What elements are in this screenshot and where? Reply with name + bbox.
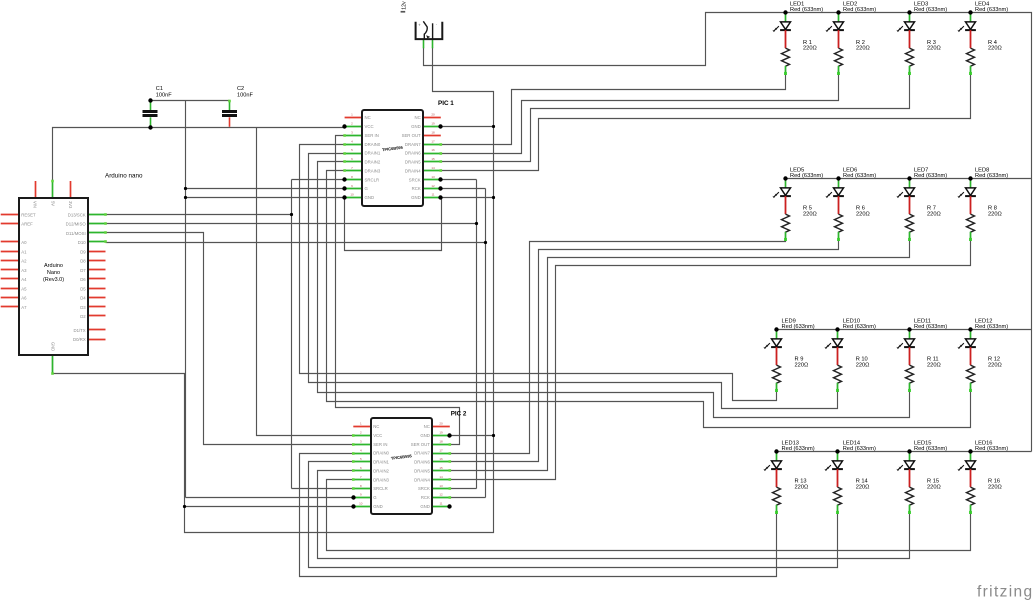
svg-text:SER IN: SER IN <box>365 133 379 138</box>
svg-text:A0: A0 <box>21 240 27 245</box>
svg-text:VCC: VCC <box>365 124 374 129</box>
svg-text:DRAIN1: DRAIN1 <box>365 151 381 156</box>
svg-text:DRAIN7: DRAIN7 <box>405 142 421 147</box>
svg-text:15: 15 <box>439 466 443 470</box>
svg-text:NC: NC <box>414 115 420 120</box>
svg-text:SER IN: SER IN <box>373 442 387 447</box>
svg-text:DRAIN4: DRAIN4 <box>405 168 421 173</box>
svg-text:Red (633nm): Red (633nm) <box>843 324 876 330</box>
svg-text:GND: GND <box>411 124 421 129</box>
svg-text:3: 3 <box>360 439 362 443</box>
svg-text:SER OUT: SER OUT <box>402 133 421 138</box>
svg-text:GND: GND <box>420 504 430 509</box>
svg-text:C1: C1 <box>156 86 163 92</box>
svg-text:3V3: 3V3 <box>68 201 73 209</box>
svg-text:DRAIN1: DRAIN1 <box>373 460 389 465</box>
svg-text:Red (633nm): Red (633nm) <box>782 324 815 330</box>
svg-text:D13/SCK: D13/SCK <box>68 213 86 218</box>
svg-text:220Ω: 220Ω <box>795 362 809 368</box>
svg-text:D4: D4 <box>80 296 86 301</box>
svg-text:Red (633nm): Red (633nm) <box>790 7 823 13</box>
svg-text:11: 11 <box>431 193 434 197</box>
svg-text:Arduino: Arduino <box>44 263 63 269</box>
svg-text:4: 4 <box>351 139 353 143</box>
svg-text:220Ω: 220Ω <box>927 484 941 490</box>
svg-text:14: 14 <box>439 475 443 479</box>
svg-text:NC: NC <box>365 115 371 120</box>
svg-text:D0/RX: D0/RX <box>73 337 86 342</box>
svg-text:VIN: VIN <box>33 201 38 208</box>
svg-text:NC: NC <box>424 424 430 429</box>
svg-text:16: 16 <box>439 457 443 461</box>
svg-text:GND: GND <box>411 195 421 200</box>
svg-text:10: 10 <box>359 502 363 506</box>
svg-text:220Ω: 220Ω <box>856 362 870 368</box>
svg-text:4: 4 <box>360 448 362 452</box>
svg-text:GND: GND <box>373 504 383 509</box>
svg-text:C2: C2 <box>237 86 244 92</box>
svg-text:DRAIN6: DRAIN6 <box>405 151 421 156</box>
svg-text:A1: A1 <box>21 249 27 254</box>
svg-text:SRCLR: SRCLR <box>373 486 388 491</box>
svg-text:220Ω: 220Ω <box>988 484 1002 490</box>
svg-text:20: 20 <box>439 422 443 426</box>
svg-text:Red (633nm): Red (633nm) <box>975 7 1008 13</box>
svg-text:220Ω: 220Ω <box>856 484 870 490</box>
svg-text:Red (633nm): Red (633nm) <box>914 173 947 179</box>
svg-text:220Ω: 220Ω <box>856 46 870 52</box>
svg-text:Red (633nm): Red (633nm) <box>975 324 1008 330</box>
svg-text:DRAIN4: DRAIN4 <box>414 477 430 482</box>
svg-text:A6: A6 <box>21 296 27 301</box>
svg-text:9: 9 <box>351 184 353 188</box>
svg-text:2: 2 <box>360 430 362 434</box>
svg-text:SRCK: SRCK <box>409 177 421 182</box>
svg-text:DRAIN2: DRAIN2 <box>373 468 389 473</box>
svg-text:16: 16 <box>431 148 435 152</box>
svg-text:17: 17 <box>431 139 435 143</box>
svg-text:220Ω: 220Ω <box>927 362 941 368</box>
svg-text:D2: D2 <box>80 314 86 319</box>
svg-text:Nano: Nano <box>47 270 60 276</box>
svg-text:DRAIN2: DRAIN2 <box>365 160 381 165</box>
svg-text:220Ω: 220Ω <box>803 211 817 217</box>
svg-text:GND: GND <box>420 433 430 438</box>
svg-text:220Ω: 220Ω <box>927 211 941 217</box>
svg-text:7: 7 <box>351 166 353 170</box>
svg-text:D9: D9 <box>80 249 86 254</box>
svg-text:D6: D6 <box>80 277 86 282</box>
svg-text:8: 8 <box>360 484 362 488</box>
svg-text:220Ω: 220Ω <box>988 362 1002 368</box>
svg-text:10: 10 <box>350 193 354 197</box>
svg-text:220Ω: 220Ω <box>856 211 870 217</box>
svg-text:Arduino nano: Arduino nano <box>105 173 143 180</box>
svg-text:11: 11 <box>439 502 442 506</box>
svg-text:13: 13 <box>431 175 435 179</box>
svg-text:100nF: 100nF <box>237 92 253 98</box>
svg-text:A4: A4 <box>21 277 27 282</box>
svg-text:Red (633nm): Red (633nm) <box>914 7 947 13</box>
svg-text:19: 19 <box>439 430 443 434</box>
svg-text:220Ω: 220Ω <box>803 46 817 52</box>
svg-text:220Ω: 220Ω <box>988 46 1002 52</box>
svg-text:D8: D8 <box>80 259 86 264</box>
svg-text:DRAIN3: DRAIN3 <box>365 168 381 173</box>
svg-text:D10: D10 <box>78 240 86 245</box>
svg-text:8: 8 <box>351 175 353 179</box>
svg-text:Red (633nm): Red (633nm) <box>914 446 947 452</box>
svg-text:A2: A2 <box>21 259 27 264</box>
svg-text:100nF: 100nF <box>156 92 172 98</box>
svg-text:13: 13 <box>439 484 443 488</box>
svg-text:(Rev3.0): (Rev3.0) <box>43 277 64 283</box>
svg-text:12: 12 <box>431 184 435 188</box>
svg-text:20: 20 <box>431 113 435 117</box>
svg-text:PIC 1: PIC 1 <box>438 100 454 107</box>
svg-text:AREF: AREF <box>21 222 33 227</box>
svg-text:Red (633nm): Red (633nm) <box>843 446 876 452</box>
svg-text:14: 14 <box>431 166 435 170</box>
svg-text:DRAIN5: DRAIN5 <box>414 468 430 473</box>
svg-text:A7: A7 <box>21 305 27 310</box>
svg-text:Red (633nm): Red (633nm) <box>843 173 876 179</box>
svg-text:5: 5 <box>351 148 353 152</box>
svg-text:NC: NC <box>373 424 379 429</box>
svg-text:D1/TX: D1/TX <box>74 328 86 333</box>
svg-text:GND: GND <box>50 342 55 351</box>
svg-text:18: 18 <box>431 130 435 134</box>
svg-text:-: - <box>436 22 438 27</box>
svg-text:5: 5 <box>360 457 362 461</box>
svg-text:GND: GND <box>365 195 375 200</box>
svg-text:6: 6 <box>360 466 362 470</box>
svg-text:D7: D7 <box>80 268 86 273</box>
svg-text:D5: D5 <box>80 286 86 291</box>
svg-text:VCC: VCC <box>373 433 382 438</box>
svg-text:220Ω: 220Ω <box>795 484 809 490</box>
svg-text:DRAIN3: DRAIN3 <box>373 477 389 482</box>
svg-text:220Ω: 220Ω <box>988 211 1002 217</box>
svg-text:19: 19 <box>431 122 435 126</box>
svg-text:A5: A5 <box>21 286 27 291</box>
svg-text:Red (633nm): Red (633nm) <box>975 446 1008 452</box>
svg-text:+: + <box>418 22 421 27</box>
svg-text:7: 7 <box>360 475 362 479</box>
svg-text:Red (633nm): Red (633nm) <box>790 173 823 179</box>
svg-text:DRAIN5: DRAIN5 <box>405 160 421 165</box>
svg-text:DRAIN0: DRAIN0 <box>365 142 381 147</box>
svg-text:3: 3 <box>351 130 353 134</box>
svg-text:2: 2 <box>351 122 353 126</box>
svg-text:RCK: RCK <box>412 186 421 191</box>
svg-text:9: 9 <box>360 493 362 497</box>
svg-text:Red (633nm): Red (633nm) <box>914 324 947 330</box>
svg-text:D3: D3 <box>80 305 86 310</box>
svg-text:12v: 12v <box>401 1 407 10</box>
svg-text:Red (633nm): Red (633nm) <box>782 446 815 452</box>
svg-text:A3: A3 <box>21 268 27 273</box>
svg-text:DRAIN6: DRAIN6 <box>414 460 430 465</box>
svg-text:D11/MOSI: D11/MOSI <box>66 231 86 236</box>
svg-text:18: 18 <box>439 439 443 443</box>
svg-text:SRCLR: SRCLR <box>365 177 380 182</box>
svg-text:17: 17 <box>439 448 443 452</box>
svg-text:SER OUT: SER OUT <box>411 442 430 447</box>
svg-text:DRAIN0: DRAIN0 <box>373 451 389 456</box>
svg-text:fritzing: fritzing <box>977 584 1033 601</box>
svg-text:1: 1 <box>351 113 353 117</box>
svg-text:220Ω: 220Ω <box>927 46 941 52</box>
svg-text:12: 12 <box>439 493 443 497</box>
svg-text:Red (633nm): Red (633nm) <box>843 7 876 13</box>
svg-text:1: 1 <box>360 422 362 426</box>
svg-text:D12/MISO: D12/MISO <box>66 222 87 227</box>
svg-text:Red (633nm): Red (633nm) <box>975 173 1008 179</box>
svg-text:SRCK: SRCK <box>418 486 430 491</box>
svg-text:RCK: RCK <box>421 495 430 500</box>
svg-text:DRAIN7: DRAIN7 <box>414 451 430 456</box>
svg-text:PIC 2: PIC 2 <box>451 410 467 417</box>
svg-text:5V: 5V <box>50 201 55 206</box>
svg-text:15: 15 <box>431 157 435 161</box>
svg-text:6: 6 <box>351 157 353 161</box>
svg-text:RESET: RESET <box>21 213 36 218</box>
